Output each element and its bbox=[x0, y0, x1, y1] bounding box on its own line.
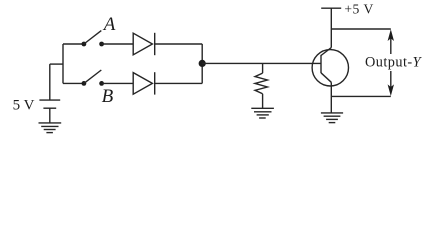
wire output top bracket bbox=[331, 28, 391, 30]
wire bottom branch left segment bbox=[63, 82, 84, 84]
switch B right contact dot bbox=[99, 81, 104, 86]
switch A right contact dot bbox=[99, 42, 104, 47]
arrow down output bbox=[388, 71, 394, 96]
switch A lever bbox=[84, 31, 101, 44]
wire battery stub bbox=[50, 63, 63, 65]
resistor R1 bbox=[255, 73, 267, 94]
svg-text:+5 V: +5 V bbox=[344, 1, 373, 16]
switch B lever bbox=[84, 70, 101, 83]
wire top branch left segment bbox=[63, 43, 84, 45]
wire collector vertical bbox=[330, 8, 332, 47]
wire output node to transistor base bbox=[202, 62, 321, 64]
arrow up output bbox=[388, 29, 394, 54]
battery V1 plate + bbox=[39, 99, 60, 101]
wire switch B to diode D2 bbox=[102, 82, 134, 84]
power +5V bar bbox=[321, 7, 341, 9]
battery V1 plate - bbox=[43, 107, 56, 109]
wire diode D1 to merge bbox=[155, 43, 203, 45]
switch B left contact dot bbox=[82, 81, 87, 86]
svg-text:A: A bbox=[102, 14, 116, 35]
node junction dot bbox=[199, 60, 206, 67]
svg-text:Output-Y: Output-Y bbox=[365, 55, 423, 71]
wire resistor to ground bbox=[262, 94, 264, 109]
diode D1 bbox=[133, 33, 155, 55]
wire ladder vertical bbox=[62, 44, 64, 83]
transistor Q1 bbox=[312, 48, 348, 86]
wire battery stem bbox=[49, 64, 51, 100]
ground transistor bbox=[321, 113, 343, 123]
wire emitter vertical bbox=[330, 82, 332, 113]
svg-text:5 V: 5 V bbox=[13, 97, 35, 113]
wire battery to ground bbox=[49, 108, 51, 123]
wire output bottom bracket bbox=[331, 95, 391, 97]
svg-text:B: B bbox=[102, 86, 114, 107]
ground battery bbox=[39, 123, 62, 133]
switch A left contact dot bbox=[82, 42, 87, 47]
wire switch A to diode D1 bbox=[102, 43, 134, 45]
wire merge vertical bbox=[201, 44, 203, 83]
ground resistor bbox=[251, 108, 274, 118]
wire resistor top stem bbox=[262, 63, 264, 73]
diode D2 bbox=[133, 72, 155, 94]
wire diode D2 to merge bbox=[155, 82, 203, 84]
